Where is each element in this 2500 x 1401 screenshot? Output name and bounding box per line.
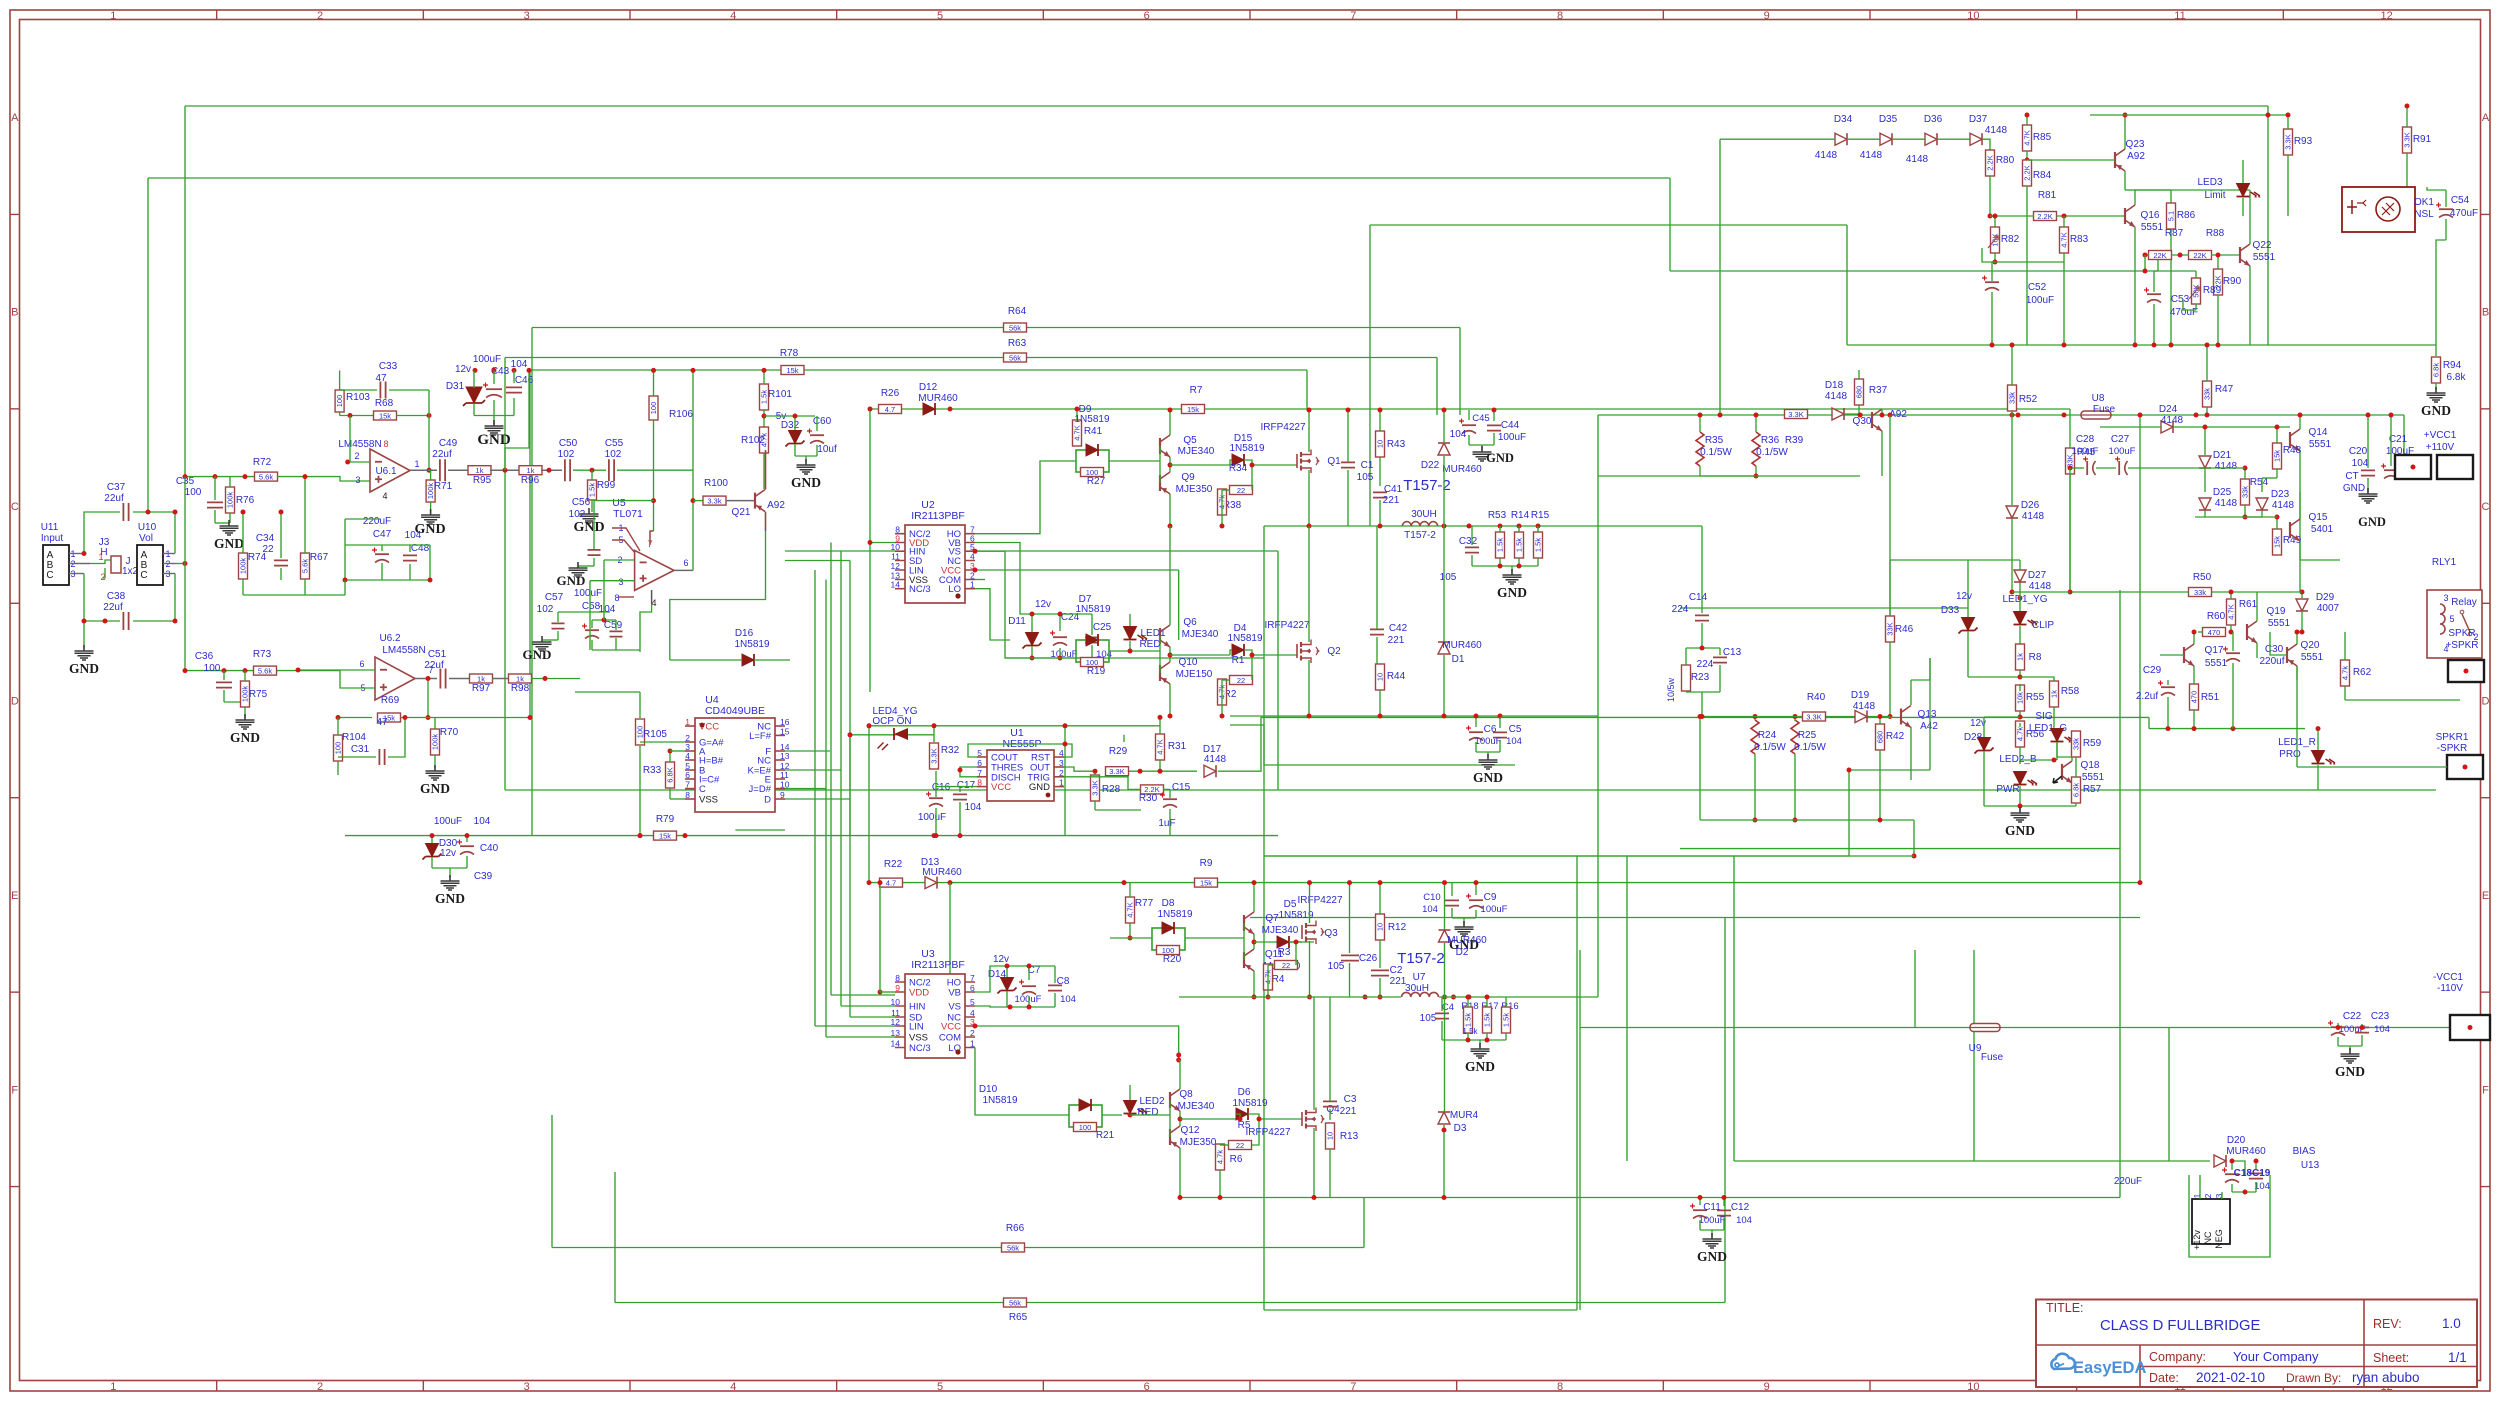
- svg-text:Q21: Q21: [732, 507, 751, 518]
- svg-text:T157-2: T157-2: [1404, 530, 1436, 541]
- svg-text:10uf: 10uf: [817, 444, 837, 455]
- svg-text:R1: R1: [1232, 655, 1245, 666]
- svg-text:C33: C33: [379, 361, 398, 372]
- svg-text:4.7k: 4.7k: [2341, 666, 2350, 680]
- svg-text:Date:: Date:: [2149, 1371, 2179, 1385]
- svg-text:GND: GND: [2421, 403, 2451, 418]
- svg-text:Q8: Q8: [1179, 1089, 1193, 1100]
- svg-text:MUR460: MUR460: [922, 867, 962, 878]
- svg-text:100uF: 100uF: [1699, 1215, 1726, 1226]
- svg-text:Q22: Q22: [2253, 240, 2272, 251]
- svg-text:R82: R82: [2001, 234, 2020, 245]
- svg-text:680: 680: [1876, 731, 1885, 744]
- svg-text:0.1/5W: 0.1/5W: [1754, 742, 1786, 753]
- svg-text:4.7K: 4.7K: [2023, 130, 2032, 145]
- svg-text:4148: 4148: [2161, 415, 2184, 426]
- svg-text:IR2113PBF: IR2113PBF: [911, 959, 965, 971]
- svg-text:22: 22: [1237, 486, 1245, 495]
- svg-text:4.7K: 4.7K: [2227, 604, 2236, 619]
- svg-text:22: 22: [1282, 961, 1290, 970]
- svg-text:ryan abubo: ryan abubo: [2352, 1370, 2420, 1385]
- svg-text:R59: R59: [2083, 738, 2102, 749]
- svg-text:Q2: Q2: [1327, 646, 1341, 657]
- svg-text:100: 100: [334, 742, 343, 755]
- svg-text:100uF: 100uF: [2109, 446, 2136, 457]
- svg-text:100uF: 100uF: [473, 354, 501, 365]
- svg-text:RLY1: RLY1: [2432, 557, 2457, 568]
- svg-text:15k: 15k: [2273, 536, 2282, 548]
- svg-text:C60: C60: [813, 416, 832, 427]
- svg-text:12v: 12v: [993, 954, 1009, 965]
- svg-text:10: 10: [1376, 440, 1385, 448]
- svg-text:Relay: Relay: [2451, 597, 2477, 608]
- svg-text:R52: R52: [2019, 394, 2038, 405]
- svg-text:E: E: [2482, 890, 2489, 902]
- svg-text:12v: 12v: [1956, 591, 1972, 602]
- svg-text:221: 221: [1388, 635, 1405, 646]
- svg-text:5551: 5551: [2253, 252, 2276, 263]
- svg-text:C6: C6: [1484, 724, 1497, 735]
- svg-text:4148: 4148: [2022, 511, 2045, 522]
- svg-text:56k: 56k: [1009, 323, 1021, 332]
- svg-text:1: 1: [110, 10, 116, 22]
- svg-text:GND: GND: [1497, 585, 1527, 600]
- svg-text:GND: GND: [2005, 823, 2035, 838]
- svg-text:100k: 100k: [239, 558, 248, 575]
- svg-text:3: 3: [2443, 593, 2448, 603]
- svg-text:LM4558N: LM4558N: [382, 645, 425, 656]
- svg-text:12: 12: [891, 1017, 901, 1027]
- svg-text:A: A: [11, 112, 19, 124]
- svg-text:10: 10: [1967, 1381, 1979, 1393]
- svg-text:8: 8: [895, 973, 900, 983]
- svg-text:A: A: [2482, 112, 2490, 124]
- svg-text:MJE340: MJE340: [1182, 629, 1219, 640]
- svg-text:Q1: Q1: [1327, 456, 1341, 467]
- svg-text:C56: C56: [572, 497, 591, 508]
- svg-text:R84: R84: [2033, 170, 2052, 181]
- svg-text:R88: R88: [2206, 228, 2225, 239]
- svg-text:C59: C59: [604, 620, 623, 631]
- svg-text:1N5819: 1N5819: [1074, 414, 1109, 425]
- svg-text:Q20: Q20: [2301, 640, 2320, 651]
- svg-text:12v: 12v: [440, 848, 456, 859]
- svg-text:C41: C41: [1384, 484, 1403, 495]
- svg-text:5551: 5551: [2268, 618, 2291, 629]
- svg-text:R37: R37: [1869, 385, 1888, 396]
- svg-text:R71: R71: [434, 481, 453, 492]
- svg-text:D31: D31: [446, 381, 465, 392]
- svg-text:LO: LO: [948, 584, 961, 595]
- svg-text:9: 9: [1764, 1381, 1770, 1393]
- svg-text:47: 47: [375, 373, 387, 384]
- svg-text:104: 104: [1506, 736, 1522, 747]
- svg-text:R22: R22: [884, 859, 903, 870]
- svg-text:105: 105: [1420, 1013, 1437, 1024]
- svg-text:4148: 4148: [1815, 150, 1838, 161]
- svg-text:Your Company: Your Company: [2233, 1349, 2319, 1364]
- svg-text:R101: R101: [768, 389, 792, 400]
- svg-text:100uF: 100uF: [2026, 295, 2054, 306]
- svg-text:R32: R32: [941, 745, 960, 756]
- svg-text:11: 11: [780, 770, 789, 780]
- svg-text:GND: GND: [435, 891, 465, 906]
- svg-text:D32: D32: [781, 420, 800, 431]
- svg-text:R98: R98: [511, 683, 530, 694]
- svg-text:2: 2: [1059, 768, 1064, 778]
- svg-text:10: 10: [1376, 673, 1385, 681]
- svg-text:1: 1: [98, 552, 103, 562]
- svg-text:MJE340: MJE340: [1178, 1101, 1215, 1112]
- svg-text:Q17: Q17: [2205, 645, 2224, 656]
- svg-text:+SPKR: +SPKR: [2445, 640, 2478, 651]
- svg-text:MUR460: MUR460: [1442, 464, 1482, 475]
- svg-text:IRFP4227: IRFP4227: [1260, 422, 1305, 433]
- svg-text:104: 104: [599, 604, 616, 615]
- svg-text:TITLE:: TITLE:: [2046, 1301, 2084, 1315]
- svg-text:C57: C57: [545, 592, 564, 603]
- svg-text:6.8k: 6.8k: [2432, 363, 2441, 377]
- svg-text:R24: R24: [1758, 730, 1777, 741]
- svg-text:4148: 4148: [1825, 391, 1848, 402]
- svg-text:5: 5: [937, 10, 943, 22]
- svg-text:D27: D27: [2028, 570, 2047, 581]
- svg-text:Q18: Q18: [2081, 760, 2100, 771]
- svg-text:D29: D29: [2316, 592, 2335, 603]
- svg-text:-110V: -110V: [2437, 983, 2463, 994]
- svg-text:100uF: 100uF: [574, 588, 602, 599]
- svg-text:4.7k: 4.7k: [2016, 727, 2025, 741]
- svg-text:C15: C15: [1172, 782, 1191, 793]
- svg-text:5: 5: [937, 1381, 943, 1393]
- svg-text:R30: R30: [1139, 793, 1158, 804]
- svg-text:R64: R64: [1008, 306, 1027, 317]
- svg-text:4007: 4007: [2317, 603, 2340, 614]
- svg-text:C1: C1: [1361, 460, 1374, 471]
- svg-text:Q6: Q6: [1183, 617, 1197, 628]
- svg-text:COM: COM: [939, 1033, 961, 1044]
- svg-text:5.6k: 5.6k: [301, 559, 310, 573]
- svg-text:R31: R31: [1168, 741, 1187, 752]
- svg-text:MJE340: MJE340: [1178, 446, 1215, 457]
- svg-text:MJE340: MJE340: [1262, 925, 1299, 936]
- svg-text:15k: 15k: [2273, 450, 2282, 462]
- svg-text:LIN: LIN: [909, 1022, 924, 1033]
- svg-text:1.5k: 1.5k: [1496, 538, 1505, 552]
- svg-text:104: 104: [474, 816, 491, 827]
- svg-text:R41: R41: [1084, 426, 1103, 437]
- svg-text:12: 12: [2381, 10, 2393, 22]
- svg-text:VCC: VCC: [941, 1022, 961, 1033]
- svg-text:C32: C32: [1459, 536, 1478, 547]
- svg-text:C4: C4: [1442, 1002, 1454, 1013]
- svg-text:R4: R4: [1272, 974, 1285, 985]
- svg-text:R14: R14: [1511, 510, 1530, 521]
- svg-text:5.6k: 5.6k: [258, 666, 272, 675]
- svg-text:D34: D34: [1834, 114, 1853, 125]
- svg-text:R46: R46: [1895, 624, 1914, 635]
- svg-text:D21: D21: [2213, 450, 2232, 461]
- svg-text:8: 8: [1557, 10, 1563, 22]
- svg-text:B: B: [2482, 307, 2489, 319]
- svg-text:D2: D2: [1456, 947, 1469, 958]
- svg-text:R21: R21: [1096, 1130, 1115, 1141]
- svg-text:100uF: 100uF: [918, 812, 946, 823]
- svg-text:R91: R91: [2413, 134, 2432, 145]
- svg-text:15: 15: [780, 726, 790, 736]
- svg-text:C50: C50: [559, 438, 578, 449]
- svg-text:R105: R105: [643, 729, 667, 740]
- svg-text:1.5k: 1.5k: [588, 483, 597, 497]
- svg-text:470uF: 470uF: [2170, 307, 2198, 318]
- svg-text:5: 5: [970, 997, 975, 1007]
- svg-text:102: 102: [558, 449, 575, 460]
- svg-text:0.1/5W: 0.1/5W: [1756, 447, 1788, 458]
- svg-text:3: 3: [355, 475, 360, 485]
- svg-text:4148: 4148: [2215, 461, 2238, 472]
- svg-text:D: D: [11, 696, 19, 708]
- svg-text:1: 1: [414, 459, 419, 469]
- svg-text:T157-2: T157-2: [1397, 950, 1445, 967]
- svg-text:1N5819: 1N5819: [1157, 909, 1192, 920]
- svg-text:R87: R87: [2165, 228, 2184, 239]
- svg-text:C18C19: C18C19: [2234, 1168, 2271, 1179]
- svg-text:A42: A42: [1920, 721, 1938, 732]
- svg-text:U6.1: U6.1: [375, 466, 397, 477]
- svg-text:7: 7: [1350, 10, 1356, 22]
- svg-text:C10: C10: [1423, 892, 1440, 903]
- svg-text:9: 9: [895, 983, 900, 993]
- svg-text:D3: D3: [1454, 1123, 1467, 1134]
- svg-text:7: 7: [977, 768, 982, 778]
- svg-text:RED: RED: [1139, 639, 1160, 650]
- svg-text:13: 13: [780, 751, 790, 761]
- svg-text:C52: C52: [2028, 282, 2047, 293]
- svg-text:C: C: [2482, 501, 2490, 513]
- svg-text:R70: R70: [440, 727, 459, 738]
- svg-text:8: 8: [614, 593, 619, 603]
- svg-text:3: 3: [618, 577, 623, 587]
- svg-text:HIN: HIN: [909, 1002, 926, 1013]
- svg-text:C46: C46: [515, 375, 534, 386]
- svg-text:R86: R86: [2177, 210, 2196, 221]
- svg-text:5551: 5551: [2141, 222, 2164, 233]
- svg-text:R55: R55: [2026, 692, 2045, 703]
- svg-text:3.3K: 3.3K: [2284, 134, 2293, 149]
- svg-text:C25: C25: [1093, 622, 1112, 633]
- svg-text:GND: GND: [1465, 1059, 1495, 1074]
- svg-text:1N5819: 1N5819: [1229, 443, 1264, 454]
- svg-text:R43: R43: [1387, 439, 1406, 450]
- svg-text:4.7K: 4.7K: [1156, 739, 1165, 754]
- svg-text:3: 3: [524, 10, 530, 22]
- svg-text:VDD: VDD: [909, 988, 929, 999]
- svg-text:C11: C11: [1703, 1202, 1721, 1213]
- svg-text:VS: VS: [948, 1002, 961, 1013]
- svg-text:LM4558N: LM4558N: [338, 439, 381, 450]
- svg-text:4148: 4148: [1853, 701, 1876, 712]
- svg-text:MJE350: MJE350: [1180, 1137, 1217, 1148]
- svg-text:12v: 12v: [455, 364, 471, 375]
- svg-text:R93: R93: [2294, 136, 2313, 147]
- svg-text:-VCC1: -VCC1: [2433, 972, 2463, 983]
- svg-text:2: 2: [317, 10, 323, 22]
- svg-text:102: 102: [605, 449, 622, 460]
- svg-text:D8: D8: [1162, 898, 1175, 909]
- svg-text:1N5819: 1N5819: [1278, 910, 1313, 921]
- svg-text:1: 1: [970, 1039, 975, 1049]
- svg-text:C: C: [11, 501, 19, 513]
- svg-text:221: 221: [1383, 495, 1400, 506]
- svg-text:D36: D36: [1924, 114, 1943, 125]
- svg-text:4148: 4148: [2029, 581, 2052, 592]
- svg-text:56k: 56k: [1007, 1243, 1019, 1252]
- svg-text:U10: U10: [138, 522, 157, 533]
- svg-text:1x2: 1x2: [122, 566, 139, 577]
- svg-text:A92: A92: [767, 500, 785, 511]
- svg-text:R36: R36: [1761, 435, 1780, 446]
- svg-text:10: 10: [1326, 1132, 1335, 1140]
- svg-text:PWR: PWR: [1996, 784, 2019, 795]
- svg-text:102: 102: [569, 509, 586, 520]
- svg-text:C16: C16: [932, 782, 951, 793]
- svg-text:PRO: PRO: [2279, 749, 2301, 760]
- svg-text:5: 5: [977, 748, 982, 758]
- svg-text:10: 10: [1967, 10, 1979, 22]
- svg-text:J=D#: J=D#: [749, 784, 772, 795]
- svg-text:220uF: 220uF: [2114, 1176, 2142, 1187]
- svg-text:4148: 4148: [1906, 154, 1929, 165]
- svg-text:R75: R75: [249, 689, 268, 700]
- svg-text:102: 102: [537, 604, 554, 615]
- svg-text:MUR460: MUR460: [1442, 640, 1482, 651]
- svg-text:1.5k: 1.5k: [1515, 538, 1524, 552]
- svg-text:4148: 4148: [1860, 150, 1883, 161]
- svg-text:4.7: 4.7: [885, 405, 895, 414]
- svg-text:33k: 33k: [2072, 738, 2081, 750]
- svg-text:1k: 1k: [476, 466, 484, 475]
- svg-text:GND: GND: [2343, 483, 2365, 494]
- svg-text:MUR460: MUR460: [918, 393, 958, 404]
- svg-text:100: 100: [185, 487, 202, 498]
- svg-text:R19: R19: [1087, 666, 1106, 677]
- svg-text:D18: D18: [1825, 380, 1844, 391]
- svg-text:C38: C38: [107, 591, 126, 602]
- svg-text:C26: C26: [1359, 953, 1378, 964]
- svg-text:OCP ON: OCP ON: [872, 716, 911, 727]
- svg-text:C8: C8: [1057, 976, 1070, 987]
- svg-text:C55: C55: [605, 438, 624, 449]
- svg-text:-SPKR: -SPKR: [2437, 743, 2468, 754]
- svg-text:R34: R34: [1229, 463, 1248, 474]
- svg-text:6.8k: 6.8k: [2447, 372, 2467, 383]
- svg-text:1N5819: 1N5819: [734, 639, 769, 650]
- svg-text:22: 22: [1236, 1141, 1244, 1150]
- svg-text:R102: R102: [741, 435, 765, 446]
- svg-text:SPKR1: SPKR1: [2436, 732, 2469, 743]
- svg-text:100k: 100k: [226, 492, 235, 509]
- svg-text:C13: C13: [1723, 647, 1742, 658]
- svg-text:R58: R58: [2061, 686, 2080, 697]
- svg-text:6.8k: 6.8k: [2072, 783, 2081, 797]
- svg-text:CT: CT: [2345, 471, 2358, 482]
- svg-text:D33: D33: [1941, 605, 1960, 616]
- svg-text:1.5k: 1.5k: [1464, 1013, 1473, 1027]
- svg-text:R85: R85: [2033, 132, 2052, 143]
- svg-text:4: 4: [382, 491, 387, 501]
- svg-text:GND: GND: [1486, 451, 1514, 465]
- svg-text:Q23: Q23: [2126, 139, 2145, 150]
- svg-text:22uf: 22uf: [104, 493, 124, 504]
- svg-text:D22: D22: [1421, 460, 1440, 471]
- svg-text:Q5: Q5: [1183, 435, 1197, 446]
- svg-text:Fuse: Fuse: [1981, 1052, 2004, 1063]
- svg-text:56k: 56k: [1009, 1298, 1021, 1307]
- svg-text:R66: R66: [1006, 1223, 1025, 1234]
- svg-text:5.1: 5.1: [2167, 211, 2176, 221]
- svg-text:1k: 1k: [2050, 690, 2059, 698]
- svg-text:R106: R106: [669, 409, 693, 420]
- svg-text:22K: 22K: [2153, 251, 2166, 260]
- svg-text:6.8K: 6.8K: [666, 767, 675, 782]
- svg-text:Limit: Limit: [2204, 190, 2225, 201]
- svg-text:GND: GND: [523, 647, 552, 662]
- svg-text:C47: C47: [373, 529, 392, 540]
- svg-text:U11: U11: [41, 522, 59, 533]
- svg-text:100uF: 100uF: [2072, 446, 2099, 457]
- svg-text:Drawn By:: Drawn By:: [2286, 1371, 2341, 1385]
- svg-text:R80: R80: [1996, 155, 2015, 166]
- svg-text:LED1_YG: LED1_YG: [2002, 594, 2047, 605]
- svg-text:224: 224: [1672, 604, 1689, 615]
- svg-text:R23: R23: [1691, 672, 1710, 683]
- svg-text:9: 9: [1764, 10, 1770, 22]
- svg-text:15k: 15k: [786, 366, 798, 375]
- svg-text:6: 6: [685, 770, 690, 780]
- svg-text:1.5k: 1.5k: [1534, 538, 1543, 552]
- svg-text:R28: R28: [1102, 784, 1121, 795]
- svg-text:E: E: [11, 890, 18, 902]
- svg-text:MUR4: MUR4: [1450, 1110, 1479, 1121]
- svg-text:1/1: 1/1: [2448, 1350, 2467, 1365]
- svg-text:C: C: [46, 570, 53, 581]
- svg-text:VB: VB: [948, 988, 961, 999]
- svg-text:47: 47: [376, 717, 388, 728]
- svg-text:6: 6: [683, 558, 688, 568]
- svg-text:R74: R74: [248, 552, 267, 563]
- svg-text:100uF: 100uF: [1475, 736, 1502, 747]
- svg-text:R81: R81: [2038, 190, 2057, 201]
- svg-text:C12: C12: [1731, 1202, 1750, 1213]
- svg-text:2: 2: [970, 1028, 975, 1038]
- svg-text:IR2113PBF: IR2113PBF: [911, 510, 965, 522]
- svg-text:D1: D1: [1452, 654, 1465, 665]
- svg-text:100k: 100k: [431, 734, 440, 751]
- svg-text:12v: 12v: [1035, 599, 1051, 610]
- svg-text:U9: U9: [1969, 1043, 1982, 1054]
- svg-text:R99: R99: [597, 480, 616, 491]
- svg-text:100uF: 100uF: [1498, 432, 1526, 443]
- svg-text:D19: D19: [1851, 690, 1870, 701]
- svg-text:R94: R94: [2443, 360, 2462, 371]
- svg-text:D23: D23: [2271, 489, 2290, 500]
- svg-text:8: 8: [977, 778, 982, 788]
- svg-text:Input: Input: [41, 533, 63, 544]
- svg-text:2.2K: 2.2K: [2023, 165, 2032, 180]
- svg-text:C54: C54: [2451, 195, 2470, 206]
- svg-text:R25: R25: [1798, 730, 1817, 741]
- svg-text:R39: R39: [1785, 435, 1804, 446]
